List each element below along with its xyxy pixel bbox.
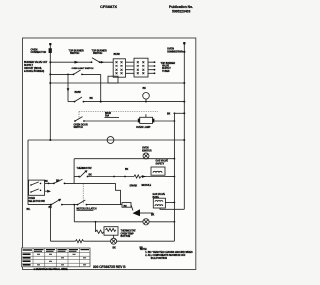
svg-text:BK: BK <box>113 248 117 250</box>
thermostat dashed box <box>73 159 75 184</box>
switch S7 blade <box>51 200 59 205</box>
resistor zigzag y176.5 <box>134 175 141 178</box>
dashed enclosure line x83 <box>82 184 84 205</box>
arrow on wire y62 <box>75 61 80 64</box>
vertical x174.4 <box>173 113 175 241</box>
wire y113 stub <box>174 112 184 114</box>
left rail corner <box>27 140 29 205</box>
stub coil box to ignitor2 <box>113 235 115 238</box>
wire row y183.4 <box>45 182 54 184</box>
bus vertical right <box>183 43 185 209</box>
wiring table <box>22 248 90 267</box>
svg-text:SWITCH: SWITCH <box>93 52 102 55</box>
wire branch x74.3 down <box>73 205 75 222</box>
junction dot <box>49 73 51 75</box>
motor circle on y140 <box>107 137 114 144</box>
wire x95.5 down to coil feed <box>95 222 97 232</box>
svg-text:BK: BK <box>89 174 93 176</box>
switch S6 blade <box>54 179 63 183</box>
svg-text:BK.: BK. <box>27 209 31 211</box>
switch S4 (door) blade <box>75 117 83 121</box>
junction dot <box>49 61 51 63</box>
node L1: oven connector blob <box>49 48 52 53</box>
svg-text:MODULE: MODULE <box>142 185 152 187</box>
wire rail x50.5 lower <box>50 205 52 242</box>
svg-text:TUBES: TUBES <box>162 71 170 73</box>
svg-text:CFS687X: CFS687X <box>100 4 117 9</box>
junction dot bus y83 <box>183 82 185 84</box>
wire row y83 <box>50 82 184 84</box>
svg-text:300 CFS687X5 REV B: 300 CFS687X5 REV B <box>93 265 126 269</box>
TB2 contact x-marks <box>137 61 145 74</box>
frame border <box>23 38 196 270</box>
switch S5 blade <box>80 171 86 177</box>
TB2 right stubs <box>148 62 155 73</box>
valve box V2 (safety valve solenoid) <box>151 167 165 175</box>
svg-text:SWITCH: SWITCH <box>70 52 79 55</box>
svg-text:BOTTOM: BOTTOM <box>121 236 131 238</box>
svg-text:1 DENOTES NEUTRAL WIRE: 1 DENOTES NEUTRAL WIRE <box>34 267 68 271</box>
svg-text:THERMOSTAT: THERMOSTAT <box>121 230 137 233</box>
table cell marks <box>37 253 40 256</box>
arrow before valve box <box>142 175 146 178</box>
svg-text:SAFETY: SAFETY <box>156 162 165 165</box>
wire row y121 to lamp <box>84 120 138 122</box>
svg-text:5995223403: 5995223403 <box>172 9 191 13</box>
wire row y74 <box>50 73 73 75</box>
svg-text:OVEN TEMP: OVEN TEMP <box>121 233 135 235</box>
svg-text:BK: BK <box>56 180 60 182</box>
wire corner down x100.7 <box>100 74 102 101</box>
wire row y221.8 <box>74 221 143 223</box>
diode triangle <box>131 205 133 211</box>
wire row y101.6 <box>68 101 75 103</box>
wire row y140 <box>28 139 184 141</box>
svg-text:BK/W: BK/W <box>105 113 112 115</box>
wire y213 <box>140 212 153 214</box>
dashed lamp enclosure <box>79 111 158 113</box>
svg-text:THERMOSTAT: THERMOSTAT <box>77 167 93 170</box>
svg-text:BK: BK <box>167 114 171 116</box>
svg-text:IDLE POSITION: IDLE POSITION <box>151 258 168 260</box>
svg-text:SPARK: SPARK <box>130 184 138 187</box>
ignitor circle-x 3 <box>111 238 117 244</box>
svg-text:BK: BK <box>125 169 129 171</box>
wire row y204.6 <box>28 204 51 206</box>
svg-text:Publication No.: Publication No. <box>169 5 193 9</box>
svg-text:IGNITOR: IGNITOR <box>142 149 152 152</box>
terminal block TB1 <box>113 59 125 77</box>
wire ignitor row to x174 <box>156 158 174 160</box>
svg-text:OVEN LIGHT SWITCH: OVEN LIGHT SWITCH <box>72 68 94 70</box>
switch S8 blade <box>78 200 86 205</box>
switch S1 blade <box>92 58 100 62</box>
svg-text:BK: BK <box>90 97 94 100</box>
terminal block TB2 <box>134 58 148 77</box>
svg-text:BK/W: BK/W <box>114 53 121 56</box>
ignitor circle-x <box>143 153 149 159</box>
svg-text:OVEN LAMP: OVEN LAMP <box>136 126 151 129</box>
svg-text:2. ALL COMPONENTS SHOWN IN OFF: 2. ALL COMPONENTS SHOWN IN OFF <box>145 254 186 257</box>
switch S2 blade <box>74 70 81 74</box>
arrow marker stub <box>45 190 48 192</box>
TB1 contact x-marks <box>116 61 123 74</box>
svg-text:BR/W: BR/W <box>75 91 82 94</box>
wire branch x68 down <box>67 74 69 101</box>
junction dot bus y101.6 <box>183 101 185 103</box>
svg-text:CONNECTOR: CONNECTOR <box>31 51 47 54</box>
switch S3 blade <box>75 97 83 102</box>
table row label smudges <box>23 253 31 255</box>
resistor zigzag into coil box <box>96 230 104 233</box>
svg-text:GAS VALVE: GAS VALVE <box>153 193 166 196</box>
connector box under TB1 <box>108 76 118 83</box>
svg-text:GAS VALVE: GAS VALVE <box>156 160 169 163</box>
svg-text:BK: BK <box>143 87 147 90</box>
wire row y241.2 <box>51 240 76 242</box>
wire row y176.5 <box>74 176 79 178</box>
arrow after S1 <box>101 61 104 64</box>
wire lamp to x174 <box>154 120 174 122</box>
valve box V3 <box>153 198 165 208</box>
wire vertical L1 rail <box>49 44 51 140</box>
svg-text:& BAKE BURNER): & BAKE BURNER) <box>24 70 44 73</box>
svg-text:SWITCH: SWITCH <box>74 126 83 129</box>
wire row y158.7 <box>74 158 156 160</box>
ignitor circle-x 2 <box>143 219 149 225</box>
coil box (thermostat oven temp) <box>104 227 118 236</box>
svg-text:BK: BK <box>151 214 155 216</box>
module box <box>122 203 131 208</box>
arrow down on x68 <box>67 88 70 92</box>
wire jog to y204.6 <box>116 183 121 204</box>
wire V3 to bus <box>165 202 174 204</box>
table header smudges <box>23 249 33 250</box>
svg-text:1. BK-* DENOTES CHASSIS GROUND: 1. BK-* DENOTES CHASSIS GROUND WIRES <box>145 251 193 254</box>
svg-text:VALVE: VALVE <box>162 65 170 68</box>
svg-text:SELECTOR SW: SELECTOR SW <box>29 201 46 203</box>
svg-text:BK: BK <box>45 181 49 183</box>
resistor zigzag y241 <box>76 240 84 243</box>
wire row y62 <box>50 61 91 63</box>
svg-text:NOTE:: NOTE: <box>140 249 147 251</box>
indicator lamp circle <box>143 93 150 100</box>
TB interconnect wires rows <box>126 62 135 73</box>
selector switch box <box>29 180 45 195</box>
oven lamp component <box>140 117 153 123</box>
